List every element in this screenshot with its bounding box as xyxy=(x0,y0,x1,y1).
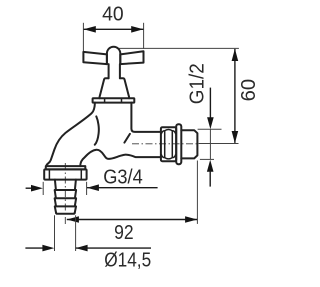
diameter 14,5 leader right xyxy=(76,247,151,249)
dimension 40 line xyxy=(84,28,144,30)
hose nozzle side left xyxy=(55,180,56,213)
body left edge and spout outer wall xyxy=(46,103,95,166)
diameter 14,5 leader left xyxy=(25,247,44,249)
hose union nut body xyxy=(44,169,86,179)
hose union nut facet lines xyxy=(49,169,81,179)
outlet flange xyxy=(176,124,181,164)
dimension 60 top extension line (from handle apex) xyxy=(119,47,239,49)
diameter 14,5 extension line right xyxy=(75,215,77,251)
G3/4 extension line right xyxy=(86,182,88,195)
G3/4 arrow left (right-pointing) xyxy=(31,185,43,192)
svg-text:60: 60 xyxy=(238,79,260,102)
handle dome and hub xyxy=(107,47,120,64)
dimension 60 line xyxy=(234,49,236,143)
dimension 60 bottom extension line (pipe axis) xyxy=(199,143,239,145)
dimension 60 arrow bottom xyxy=(232,131,239,143)
outlet thread G1/2 xyxy=(181,130,197,158)
G3/4 leader right xyxy=(87,187,158,189)
thread bottom extension line xyxy=(200,158,214,160)
hose nozzle side right xyxy=(75,180,76,213)
thread top extension line xyxy=(198,128,222,130)
G3/4 leader left xyxy=(26,187,33,189)
dimension 92 right extension line xyxy=(196,161,198,224)
G1/2 leader lower xyxy=(209,170,211,187)
handle right wing xyxy=(120,51,143,64)
hose nozzle bottom edge xyxy=(56,212,75,215)
outlet hex nut xyxy=(161,127,176,161)
spout root arc on body xyxy=(95,116,99,144)
dimension 40 extension line left xyxy=(82,23,84,52)
dimension 40 extension line right xyxy=(143,23,145,49)
pipe centerline xyxy=(132,143,198,145)
nozzle centerline xyxy=(64,163,66,225)
bonnet cone xyxy=(100,78,130,98)
handle stem xyxy=(109,64,120,78)
diameter 14,5 arrow right (left-pointing) xyxy=(76,245,88,252)
dimension 92 arrow left xyxy=(67,216,79,223)
G1/2 leader upper xyxy=(209,88,211,120)
hose union nut top plate xyxy=(46,166,86,169)
handle left wing xyxy=(83,52,107,64)
dimension 92 line xyxy=(67,219,197,221)
G1/2 connector line through thread xyxy=(209,129,211,159)
diameter 14,5 arrow left (right-pointing) xyxy=(42,245,54,252)
outlet nut facet lines and chamfer arcs xyxy=(161,130,176,159)
diameter 14,5 extension line left xyxy=(54,215,56,251)
dimension 40 arrow left xyxy=(84,26,96,33)
body right edge and pipe top xyxy=(131,103,161,132)
G1/2 arrow upper (down) xyxy=(207,117,214,129)
G1/2 arrow lower (up) xyxy=(207,160,214,172)
svg-text:G3/4: G3/4 xyxy=(103,167,143,189)
hose nozzle barb lines xyxy=(55,190,76,206)
svg-text:Ø14,5: Ø14,5 xyxy=(104,249,151,271)
dimension 92 arrow right xyxy=(185,216,197,223)
dimension 60 arrow top xyxy=(232,49,239,61)
bonnet hex nut xyxy=(93,98,135,102)
dimension 40 arrow right xyxy=(131,26,143,33)
spout inner wall and body bottom edge xyxy=(80,150,161,166)
G3/4 extension line left xyxy=(42,182,44,195)
svg-text:40: 40 xyxy=(102,3,124,25)
body-pipe transition tick xyxy=(124,134,129,143)
bonnet nut facet lines xyxy=(105,98,122,102)
G3/4 arrow right (left-pointing) xyxy=(87,184,99,191)
svg-text:G1/2: G1/2 xyxy=(186,63,208,104)
svg-text:92: 92 xyxy=(114,222,134,244)
